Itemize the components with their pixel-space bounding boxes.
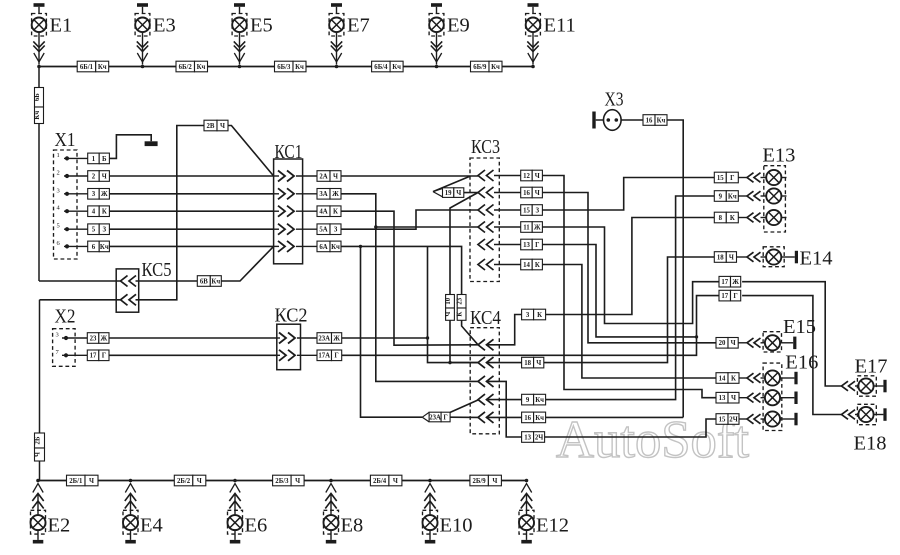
wire label 23А Г (splice at KC4) bbox=[429, 412, 450, 422]
svg-text:3: 3 bbox=[526, 312, 530, 319]
connector strip KC5 bbox=[116, 269, 139, 312]
lamp symbol E6 bbox=[228, 515, 243, 530]
svg-text:Х2: Х2 bbox=[55, 306, 76, 328]
svg-text:3: 3 bbox=[92, 191, 96, 198]
svg-text:E3: E3 bbox=[153, 15, 176, 37]
svg-text:К: К bbox=[731, 375, 736, 382]
wire label 17 Г (X2 pin 7) bbox=[87, 350, 109, 361]
svg-text:15: 15 bbox=[523, 207, 530, 214]
svg-text:9: 9 bbox=[526, 397, 530, 404]
svg-text:17: 17 bbox=[90, 353, 97, 360]
wire E1 to top bus with arrow bbox=[38, 32, 40, 64]
wire label 11 Ж (KC3 output) bbox=[521, 222, 543, 233]
svg-text:5: 5 bbox=[92, 227, 96, 234]
wire label 16 Кч (KC4 output) bbox=[522, 412, 546, 423]
svg-text:E15: E15 bbox=[783, 316, 816, 338]
junction E3 / top bus bbox=[141, 65, 145, 69]
svg-text:6Б/3: 6Б/3 bbox=[277, 64, 291, 71]
svg-text:18: 18 bbox=[524, 360, 531, 367]
svg-text:Кч: Кч bbox=[331, 244, 340, 251]
svg-text:Ч: Ч bbox=[333, 173, 338, 180]
dashed outline of E2 bbox=[31, 510, 46, 534]
wire label 6Б/3 Кч (top bus) bbox=[275, 61, 307, 72]
wire branch net Кч down to KC4 row5 splice bbox=[361, 246, 423, 417]
wire label 12 Ч (KC3 output) bbox=[521, 170, 543, 181]
lamp E2 (bottom row) bbox=[31, 479, 46, 544]
lamp E7 (top row) bbox=[329, 3, 344, 68]
dashed outline of E8 bbox=[324, 510, 339, 534]
wire label 6А Кч (KC1 output) bbox=[317, 241, 341, 252]
connector strip KC1 bbox=[274, 159, 303, 264]
connector strip KC4 bbox=[470, 328, 499, 434]
wire KC5 row2 right, up, to 2В label and diagonal to KC1 row1 bbox=[136, 126, 205, 300]
wire label 6Б Кч (vertical, left trunk upper) bbox=[34, 88, 44, 124]
wire branch net Ж down to KC4 row3 bbox=[376, 227, 478, 381]
contact row 1 of KC3 bbox=[478, 170, 494, 181]
wire E2 from bottom bus with arrow bbox=[33, 484, 43, 493]
svg-text:Ч: Ч bbox=[102, 173, 107, 180]
lamp symbol E12 bbox=[519, 515, 534, 530]
svg-text:2Ч: 2Ч bbox=[729, 416, 737, 423]
wire riser net Ж at x427 (6А row to KC4 row2) bbox=[428, 246, 479, 362]
wire label 17А Г (KC2 output) bbox=[317, 350, 342, 361]
wire label 2Б/2 Ч (bottom bus) bbox=[174, 475, 206, 486]
lamp E4 (bottom row) bbox=[123, 479, 138, 544]
contact row 4 of KC3 bbox=[478, 222, 494, 233]
svg-text:E1: E1 bbox=[50, 15, 73, 37]
wire splice diagonal to KC4 row4 bbox=[450, 400, 479, 413]
svg-text:Ж: Ж bbox=[101, 191, 108, 198]
wire X1 pin 2 to KC1 bbox=[109, 175, 273, 177]
ground (chassis) for X1 pin 1 bbox=[145, 141, 158, 146]
pin b of X3 bbox=[615, 118, 619, 122]
svg-text:15: 15 bbox=[719, 416, 726, 423]
svg-text:2Б/4: 2Б/4 bbox=[373, 478, 387, 485]
lamp symbol E2 bbox=[31, 515, 46, 530]
wire net 16 Кч: KC4 row5 out to X3 vertical bbox=[486, 416, 522, 418]
wire label 1 Б (X1 pin) bbox=[88, 153, 110, 164]
svg-text:20: 20 bbox=[719, 340, 726, 347]
wire label 18 Ч (E14 feed) bbox=[714, 252, 736, 263]
svg-text:15: 15 bbox=[717, 175, 724, 182]
svg-text:2Б/2: 2Б/2 bbox=[177, 478, 191, 485]
svg-text:Ч: Ч bbox=[445, 312, 452, 317]
junction E5 / top bus bbox=[238, 65, 242, 69]
ground of E2 bbox=[37, 530, 39, 540]
lamp E3 (top row) bbox=[135, 3, 150, 68]
svg-text:16: 16 bbox=[523, 190, 530, 197]
svg-text:E2: E2 bbox=[48, 515, 71, 537]
svg-text:Кч: Кч bbox=[392, 64, 401, 71]
junction E6 / bottom bus bbox=[233, 479, 237, 483]
wire X1 pin 6 to KC1 bbox=[109, 245, 273, 247]
wire label 2Б Ч (vertical, left trunk lower) bbox=[35, 433, 45, 461]
wire E5 to top bus with arrow bbox=[239, 32, 241, 64]
dashed outline of E11 bbox=[526, 14, 541, 37]
wire left trunk lower (KC5 pin 2 to bottom bus) bbox=[39, 300, 41, 481]
lamp 15 of E16 bbox=[739, 418, 747, 420]
wire E12 from bottom bus with arrow bbox=[521, 484, 531, 493]
svg-text:E14: E14 bbox=[800, 247, 833, 269]
wire X1 pin 3 to KC1 bbox=[109, 193, 273, 195]
contact row 1 of KC4 bbox=[478, 339, 494, 350]
wire label 16 Ч (KC3 output) bbox=[521, 187, 543, 198]
svg-text:Г: Г bbox=[334, 353, 338, 360]
junction E1 / top bus bbox=[37, 65, 41, 69]
svg-text:1: 1 bbox=[92, 156, 96, 163]
contact row 2 of KC4 bbox=[478, 357, 494, 368]
wire label 23 К (vertical) bbox=[457, 295, 466, 321]
lamp symbol E9 bbox=[429, 18, 444, 33]
dashed outline of E6 bbox=[228, 510, 243, 534]
svg-text:КС3: КС3 bbox=[471, 136, 500, 158]
svg-text:2: 2 bbox=[92, 173, 96, 180]
svg-text:E11: E11 bbox=[544, 15, 576, 37]
contact row 2 of KC2 bbox=[277, 354, 280, 356]
wire label 6Б/4 Кч (top bus) bbox=[372, 61, 404, 72]
ground of E11 bbox=[528, 3, 539, 7]
wire label 10 Ч (vertical) bbox=[445, 295, 454, 321]
wire label 6В Кч (KC5 to KC1) bbox=[197, 276, 221, 287]
lamp symbol E11 bbox=[526, 18, 541, 33]
wire label 17 Ж bbox=[719, 276, 741, 287]
svg-text:К: К bbox=[333, 209, 338, 216]
wire X1 pin1 to chassis ground bbox=[109, 135, 151, 159]
lamp E17 bbox=[842, 381, 856, 391]
svg-text:17А: 17А bbox=[318, 353, 330, 360]
lamp symbol E4 bbox=[123, 515, 138, 530]
wire X3 to net 16 bbox=[621, 119, 643, 121]
wire bottom bus (lamps E2-E12 supply) bbox=[38, 480, 527, 482]
contact row 5 of KC4 bbox=[478, 412, 494, 423]
svg-text:3: 3 bbox=[56, 332, 59, 339]
svg-text:К: К bbox=[102, 209, 107, 216]
svg-text:Б: Б bbox=[102, 156, 107, 163]
svg-text:23: 23 bbox=[90, 335, 97, 342]
svg-text:Г: Г bbox=[535, 242, 539, 249]
lamp E18 bbox=[842, 410, 856, 420]
svg-text:13: 13 bbox=[719, 395, 726, 402]
svg-text:19: 19 bbox=[445, 190, 452, 197]
svg-text:Ж: Ж bbox=[332, 191, 339, 198]
wire label 2А Ч (KC1 output) bbox=[317, 171, 341, 182]
dashed outline of X1 bbox=[54, 150, 78, 259]
svg-text:КС4: КС4 bbox=[470, 307, 501, 329]
svg-text:Ч: Ч bbox=[535, 190, 540, 197]
lamp E12 (bottom row) bbox=[519, 479, 534, 544]
svg-text:Х1: Х1 bbox=[55, 129, 76, 151]
wire E6 from bottom bus with arrow bbox=[230, 484, 240, 493]
contact row 5 of KC3 bbox=[478, 239, 494, 250]
junction E4 / bottom bus bbox=[129, 479, 133, 483]
lamp E9 (top row) bbox=[429, 3, 444, 68]
svg-text:3: 3 bbox=[57, 187, 60, 194]
dashed outline of E4 bbox=[123, 510, 138, 534]
wire E8 from bottom bus with arrow bbox=[326, 484, 336, 493]
svg-text:6Б: 6Б bbox=[34, 93, 41, 101]
dashed outline of E7 bbox=[329, 14, 344, 37]
wire label 2Б/1 Ч (bottom bus) bbox=[67, 475, 99, 486]
wire X1 pin 5 to KC1 bbox=[109, 228, 273, 230]
wire KC5 row2 left to lower trunk bbox=[40, 299, 121, 301]
svg-text:Ч: Ч bbox=[456, 190, 461, 197]
svg-text:Ж: Ж bbox=[534, 224, 541, 231]
lamp E10 (bottom row) bbox=[423, 479, 438, 544]
wire label 6Б/1 Кч (top bus) bbox=[77, 61, 109, 72]
wire net 16 Ч: KC3 row2 down to E15 bbox=[542, 193, 716, 343]
svg-text:11: 11 bbox=[523, 224, 530, 231]
wire net 17А Г: KC2 row2 right and up to 17 Г bbox=[342, 296, 720, 356]
terminal of E14 bbox=[795, 251, 798, 263]
lamp 13 of E16 bbox=[739, 397, 747, 399]
wire net 10 Ч: KC3 row2 down to KC4 row2 bbox=[450, 193, 478, 363]
ground of E10 bbox=[429, 530, 431, 540]
svg-text:4А: 4А bbox=[319, 209, 327, 216]
wire label 2Б/3 Ч (bottom bus) bbox=[273, 475, 305, 486]
terminal of E16 lamp 14 bbox=[794, 372, 797, 385]
ground of E5 bbox=[234, 3, 245, 7]
terminal of E16 lamp 15 bbox=[794, 413, 797, 426]
svg-text:17: 17 bbox=[721, 279, 728, 286]
lamp symbol E3 bbox=[135, 18, 150, 33]
body of X3 bbox=[604, 110, 622, 131]
svg-text:16: 16 bbox=[646, 117, 653, 124]
lamp 8 of E13 bbox=[738, 217, 747, 219]
wire label 6Б/9 Кч (top bus) bbox=[471, 61, 503, 72]
contact row 5 of KC1 bbox=[274, 245, 279, 247]
svg-text:К: К bbox=[535, 262, 540, 269]
svg-text:Ч: Ч bbox=[731, 340, 736, 347]
wire net 17 Ж to E17 bbox=[742, 282, 841, 386]
svg-text:Ч: Ч bbox=[35, 452, 42, 457]
svg-text:E7: E7 bbox=[347, 15, 370, 37]
wire label 14 К (KC3 output) bbox=[521, 259, 543, 270]
svg-text:23: 23 bbox=[457, 297, 464, 304]
svg-text:З: З bbox=[536, 207, 540, 214]
svg-text:Г: Г bbox=[733, 293, 737, 300]
svg-text:14: 14 bbox=[523, 262, 530, 269]
svg-text:Ч: Ч bbox=[536, 360, 541, 367]
wire label 3 К (KC4 output) bbox=[522, 309, 546, 320]
wire X1 pin 4 to KC1 bbox=[109, 210, 273, 212]
lamp symbol E10 bbox=[423, 515, 438, 530]
connector strip KC3 bbox=[470, 158, 499, 282]
wire net 4А К: KC1 row3 down to KC4 row1 bbox=[341, 211, 478, 345]
wire net 18 Ч: KC4 row2 out to E14 bbox=[486, 362, 522, 364]
svg-text:E6: E6 bbox=[245, 515, 268, 537]
lamp symbol E1 bbox=[32, 18, 47, 33]
dashed outline of E5 bbox=[232, 14, 247, 37]
junction net Кч split bbox=[359, 245, 362, 248]
contact row 3 of KC4 bbox=[478, 376, 494, 387]
svg-text:13: 13 bbox=[523, 242, 530, 249]
svg-text:Ч: Ч bbox=[89, 478, 94, 485]
svg-text:9: 9 bbox=[719, 193, 723, 200]
svg-text:23А: 23А bbox=[429, 414, 441, 421]
wire label 23А Ж (KC2 output) bbox=[317, 333, 342, 344]
wire label 4А К (KC1 output) bbox=[317, 206, 341, 217]
svg-text:КС5: КС5 bbox=[142, 259, 172, 281]
svg-text:3А: 3А bbox=[319, 191, 327, 198]
wire label 5 З (X1 pin) bbox=[88, 224, 110, 235]
terminal of E18 bbox=[883, 408, 886, 421]
svg-text:К: К bbox=[457, 312, 464, 317]
svg-text:6Б/9: 6Б/9 bbox=[473, 64, 487, 71]
lamp 15 of E13 bbox=[738, 177, 747, 179]
lamp E8 (bottom row) bbox=[324, 479, 339, 544]
svg-text:Кч: Кч bbox=[728, 193, 737, 200]
svg-text:Кч: Кч bbox=[100, 244, 109, 251]
wire left trunk to KC5 row1 bbox=[39, 280, 121, 282]
svg-text:Кч: Кч bbox=[535, 397, 544, 404]
contact row 1 of KC5 bbox=[121, 276, 137, 287]
junction net Г riser bbox=[695, 335, 698, 338]
wire label 4 К (X1 pin) bbox=[88, 206, 110, 217]
wire net 13 2Ч: KC4 row3 out, down then right bbox=[486, 381, 522, 437]
svg-text:E17: E17 bbox=[855, 356, 888, 378]
wire top bus (lamps E1-E11 supply) bbox=[39, 66, 533, 68]
contact row 4 of KC1 bbox=[274, 228, 279, 230]
svg-text:6А: 6А bbox=[319, 244, 327, 251]
junction E2 / bottom bus bbox=[36, 479, 40, 483]
wire net 2А Ч: KC1 row1 to KC3 row1 bbox=[341, 175, 478, 177]
wire label 16 Кч (X3 wire) bbox=[643, 115, 667, 126]
wire KC5 row1 right to 6В and diagonal up to KC1 bbox=[136, 280, 198, 282]
dashed outline of E9 bbox=[429, 14, 444, 37]
svg-text:E12: E12 bbox=[536, 515, 569, 537]
svg-text:2А: 2А bbox=[319, 173, 327, 180]
svg-text:13: 13 bbox=[524, 434, 531, 441]
wire label 2Б/4 Ч (bottom bus) bbox=[370, 475, 402, 486]
svg-text:6В: 6В bbox=[200, 278, 208, 285]
wire X2 pin3 to KC2 bbox=[109, 337, 277, 339]
ground of E4 bbox=[130, 530, 132, 540]
svg-text:Кч: Кч bbox=[657, 117, 666, 124]
svg-text:Г: Г bbox=[443, 414, 447, 421]
svg-text:К: К bbox=[537, 312, 542, 319]
svg-text:Кч: Кч bbox=[295, 64, 304, 71]
junction E9 / top bus bbox=[435, 65, 439, 69]
svg-text:Ч: Ч bbox=[729, 254, 734, 261]
svg-text:E5: E5 bbox=[250, 15, 273, 37]
wire label 15 2Ч (E16 feed) bbox=[716, 414, 739, 425]
svg-text:18: 18 bbox=[717, 254, 724, 261]
wire net 14 К: KC3 row6 down to E16 row1 bbox=[542, 265, 716, 379]
junction net Ж split bbox=[374, 225, 377, 228]
wire left trunk upper (top bus to KC5 pin 1) bbox=[38, 67, 40, 282]
svg-text:Кч: Кч bbox=[197, 64, 206, 71]
svg-text:12: 12 bbox=[523, 173, 530, 180]
svg-text:Ж: Ж bbox=[732, 279, 739, 286]
svg-text:Ж: Ж bbox=[101, 335, 108, 342]
svg-text:10: 10 bbox=[445, 297, 452, 304]
svg-text:2Б/9: 2Б/9 bbox=[473, 478, 487, 485]
splice wire 19 Ч from KC3 row1 to row2 (pennant label) bbox=[433, 176, 471, 192]
wire net 12 Ч: KC3 row1 down to E16 row2 bbox=[542, 176, 716, 398]
svg-text:6: 6 bbox=[92, 244, 96, 251]
svg-text:Кч: Кч bbox=[98, 64, 107, 71]
svg-text:5А: 5А bbox=[319, 227, 327, 234]
svg-text:E18: E18 bbox=[854, 433, 887, 455]
junction E7 / top bus bbox=[335, 65, 339, 69]
junction E10 / bottom bus bbox=[428, 479, 432, 483]
svg-text:Ч: Ч bbox=[393, 478, 398, 485]
svg-text:23А: 23А bbox=[318, 335, 330, 342]
wire net 13 Г: KC3 row5 down to net 13 junction bbox=[542, 245, 696, 337]
svg-text:Ч: Ч bbox=[295, 478, 300, 485]
terminal of E17 bbox=[883, 380, 886, 393]
lamp E11 (top row) bbox=[526, 3, 541, 68]
junction E11 / top bus bbox=[531, 65, 535, 69]
svg-text:1: 1 bbox=[57, 152, 60, 159]
wire E4 from bottom bus with arrow bbox=[125, 484, 135, 493]
svg-text:2Б: 2Б bbox=[35, 436, 42, 444]
svg-text:E4: E4 bbox=[140, 515, 163, 537]
pin a of X3 bbox=[607, 118, 611, 122]
junction E12 / bottom bus bbox=[525, 479, 529, 483]
wire label 9 Кч (E13 feed) bbox=[714, 191, 738, 202]
svg-text:E16: E16 bbox=[785, 352, 818, 374]
svg-text:Кч: Кч bbox=[34, 111, 41, 120]
svg-text:З: З bbox=[334, 227, 338, 234]
svg-text:Кч: Кч bbox=[535, 415, 544, 422]
wire label 20 Ч (E15 feed) bbox=[716, 338, 738, 349]
svg-text:Кч: Кч bbox=[211, 278, 220, 285]
junction net 10 Ч / KC4 row2 wire bbox=[448, 361, 451, 364]
svg-text:Ч: Ч bbox=[197, 478, 202, 485]
wire E10 from bottom bus with arrow bbox=[425, 484, 435, 493]
svg-text:8: 8 bbox=[719, 215, 723, 222]
wire net 23 К diagonal into KC4 row1 bbox=[462, 320, 478, 345]
wire net 5А З: KC1 row4 to KC3 row3 bbox=[341, 210, 478, 229]
wire net 3 К: KC4 row1 out, up to E13 row3 bbox=[486, 315, 522, 345]
wire label 3А Ж (KC1 output) bbox=[317, 189, 341, 200]
svg-text:16: 16 bbox=[524, 415, 531, 422]
wire label 6Б/2 Кч (top bus) bbox=[176, 61, 208, 72]
wire net 15 З: KC3 row3 up to E13 row1 bbox=[542, 178, 714, 211]
svg-text:14: 14 bbox=[719, 375, 726, 382]
svg-text:E9: E9 bbox=[447, 15, 470, 37]
wire X3 terminal to body bbox=[596, 119, 604, 121]
ground of E12 bbox=[526, 530, 528, 540]
svg-text:2В: 2В bbox=[207, 123, 215, 130]
contact row 2 of KC3 bbox=[478, 187, 494, 198]
wire label 13 Г (KC3 output) bbox=[521, 239, 543, 250]
svg-text:Ч: Ч bbox=[492, 478, 497, 485]
svg-text:З: З bbox=[103, 227, 107, 234]
dashed outline of E10 bbox=[423, 510, 438, 534]
svg-text:Кч: Кч bbox=[491, 64, 500, 71]
wire label 5А З (KC1 output) bbox=[317, 224, 341, 235]
svg-text:Ж: Ж bbox=[333, 335, 340, 342]
terminal of E16 lamp 13 bbox=[794, 392, 797, 405]
wire label 19 Ч (splice at KC3) bbox=[443, 188, 464, 198]
wire label 9 Кч (KC4 output) bbox=[522, 394, 546, 405]
wire label 15 З (KC3 output) bbox=[521, 205, 543, 216]
ground of E7 bbox=[331, 3, 342, 7]
wire E7 to top bus with arrow bbox=[336, 32, 338, 64]
svg-text:К: К bbox=[730, 215, 735, 222]
wire net 9 Кч: KC4 row4 out, up to E13 row2 bbox=[486, 399, 522, 401]
wire net 3А Ж: KC1 row2 to KC3 row4 bbox=[341, 194, 478, 227]
wire label 3 Ж (X1 pin) bbox=[88, 189, 110, 200]
svg-text:2Б/1: 2Б/1 bbox=[69, 478, 83, 485]
wire label 18 Ч (KC4 output) bbox=[522, 357, 544, 368]
lamp symbol E8 bbox=[324, 515, 339, 530]
dashed outline of E12 bbox=[519, 510, 534, 534]
svg-text:2: 2 bbox=[57, 170, 60, 177]
wire label 6 Кч (X1 pin) bbox=[88, 241, 110, 252]
